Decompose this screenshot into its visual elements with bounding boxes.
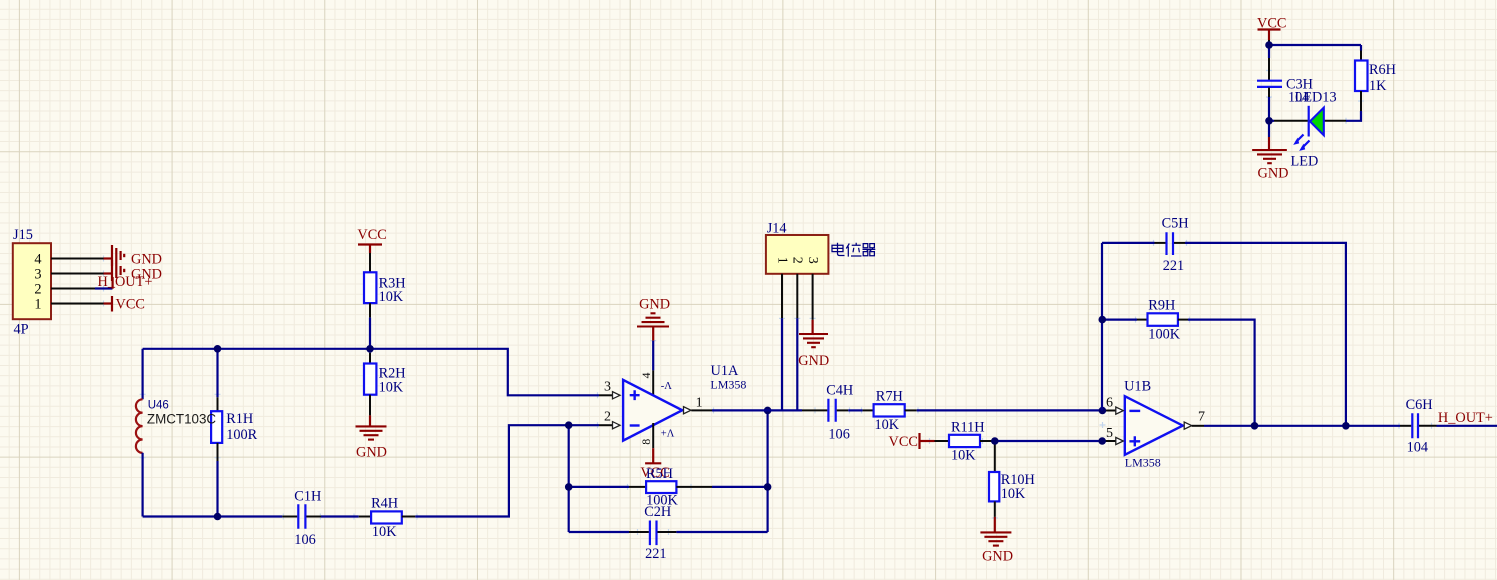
- svg-text:5: 5: [1106, 426, 1113, 441]
- svg-text:221: 221: [645, 546, 666, 562]
- svg-text:R9H: R9H: [1148, 298, 1175, 314]
- svg-text:10K: 10K: [1001, 486, 1026, 502]
- svg-text:VCC: VCC: [889, 434, 918, 450]
- svg-text:8: 8: [639, 439, 653, 445]
- svg-text:C4H: C4H: [826, 383, 853, 399]
- svg-text:H_OUT+: H_OUT+: [98, 274, 153, 290]
- svg-text:2: 2: [34, 282, 41, 298]
- svg-text:3: 3: [805, 257, 820, 264]
- svg-text:R1H: R1H: [226, 411, 253, 427]
- svg-text:106: 106: [294, 532, 315, 548]
- svg-text:3: 3: [604, 380, 611, 395]
- svg-text:2: 2: [789, 257, 804, 264]
- svg-text:4P: 4P: [14, 322, 29, 338]
- svg-text:H_OUT+: H_OUT+: [1438, 410, 1493, 426]
- svg-text:1: 1: [775, 257, 790, 264]
- svg-text:4: 4: [639, 373, 653, 379]
- svg-text:GND: GND: [356, 445, 387, 461]
- svg-text:GND: GND: [131, 252, 162, 268]
- svg-text:R11H: R11H: [951, 420, 985, 436]
- svg-text:LED13: LED13: [1295, 90, 1337, 106]
- svg-text:221: 221: [1163, 258, 1184, 274]
- svg-text:U46: U46: [148, 400, 169, 412]
- svg-text:C2H: C2H: [644, 504, 671, 520]
- svg-text:1K: 1K: [1369, 78, 1387, 94]
- svg-text:LM358: LM358: [1125, 456, 1161, 470]
- svg-text:GND: GND: [798, 353, 829, 369]
- svg-text:10K: 10K: [875, 417, 900, 433]
- svg-text:VCC: VCC: [357, 227, 386, 243]
- svg-text:10K: 10K: [379, 289, 404, 305]
- svg-text:LM358: LM358: [710, 378, 746, 392]
- svg-text:106: 106: [828, 427, 849, 443]
- svg-text:104: 104: [1407, 440, 1428, 456]
- svg-text:10K: 10K: [372, 524, 397, 540]
- svg-text:6: 6: [1106, 396, 1113, 411]
- svg-text:J15: J15: [13, 227, 33, 243]
- svg-text:7: 7: [1198, 410, 1205, 425]
- svg-text:1: 1: [34, 297, 41, 313]
- svg-text:GND: GND: [982, 549, 1013, 565]
- svg-text:R5H: R5H: [646, 466, 673, 482]
- svg-text:ZMCT103C: ZMCT103C: [147, 412, 217, 427]
- svg-text:VCC: VCC: [1257, 16, 1286, 32]
- svg-text:3: 3: [34, 267, 41, 283]
- svg-text:100K: 100K: [1148, 327, 1180, 343]
- svg-text:4: 4: [34, 252, 41, 268]
- svg-text:R7H: R7H: [876, 389, 903, 405]
- svg-text:C5H: C5H: [1162, 216, 1189, 232]
- svg-text:-Λ: -Λ: [661, 381, 672, 392]
- svg-text:+Λ: +Λ: [661, 428, 675, 439]
- svg-text:10K: 10K: [951, 448, 976, 464]
- svg-text:GND: GND: [1258, 166, 1289, 182]
- svg-text:1: 1: [696, 396, 703, 411]
- svg-text:U1B: U1B: [1124, 379, 1151, 395]
- svg-text:C6H: C6H: [1406, 397, 1433, 413]
- svg-text:2: 2: [604, 410, 611, 425]
- svg-text:R6H: R6H: [1369, 62, 1396, 78]
- svg-text:C1H: C1H: [294, 489, 321, 505]
- svg-text:R4H: R4H: [371, 496, 398, 512]
- svg-text:100R: 100R: [226, 427, 257, 443]
- svg-text:J14: J14: [767, 221, 787, 237]
- svg-text:10K: 10K: [379, 380, 404, 396]
- svg-text:GND: GND: [639, 297, 670, 313]
- svg-text:LED: LED: [1291, 154, 1319, 170]
- svg-text:VCC: VCC: [116, 297, 145, 313]
